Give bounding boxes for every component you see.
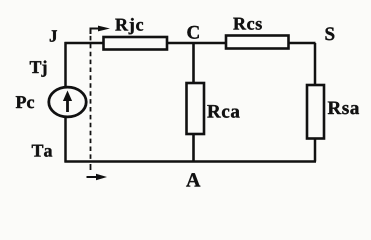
resistor Rsa: [307, 85, 324, 139]
label Rcs: [233, 18, 261, 30]
node S label: [326, 27, 335, 40]
wire top rail from J to S: [65, 42, 316, 45]
wire bottom rail A: [65, 160, 317, 163]
bottom boundary arrow: [87, 176, 99, 178]
node A label: [186, 173, 200, 186]
label Ta: [32, 145, 52, 157]
node C label: [187, 26, 198, 39]
node J label: [50, 30, 57, 41]
top boundary arrow: [90, 28, 92, 35]
wire node C vertical: [192, 43, 195, 162]
resistor Rcs: [226, 36, 289, 49]
dashed case boundary line: [90, 28, 92, 160]
resistor Rca: [187, 83, 205, 134]
label Rsa: [328, 102, 359, 115]
resistor Rjc: [104, 37, 168, 50]
label Pc: [16, 96, 34, 108]
wire left vertical J to bottom rail: [64, 42, 67, 163]
label Rca: [207, 105, 239, 118]
current source arrow: [66, 98, 69, 112]
label Tj: [30, 61, 47, 77]
label Rjc: [115, 18, 143, 34]
current source Pc (circle): [49, 87, 86, 117]
wire node S vertical: [314, 43, 317, 162]
